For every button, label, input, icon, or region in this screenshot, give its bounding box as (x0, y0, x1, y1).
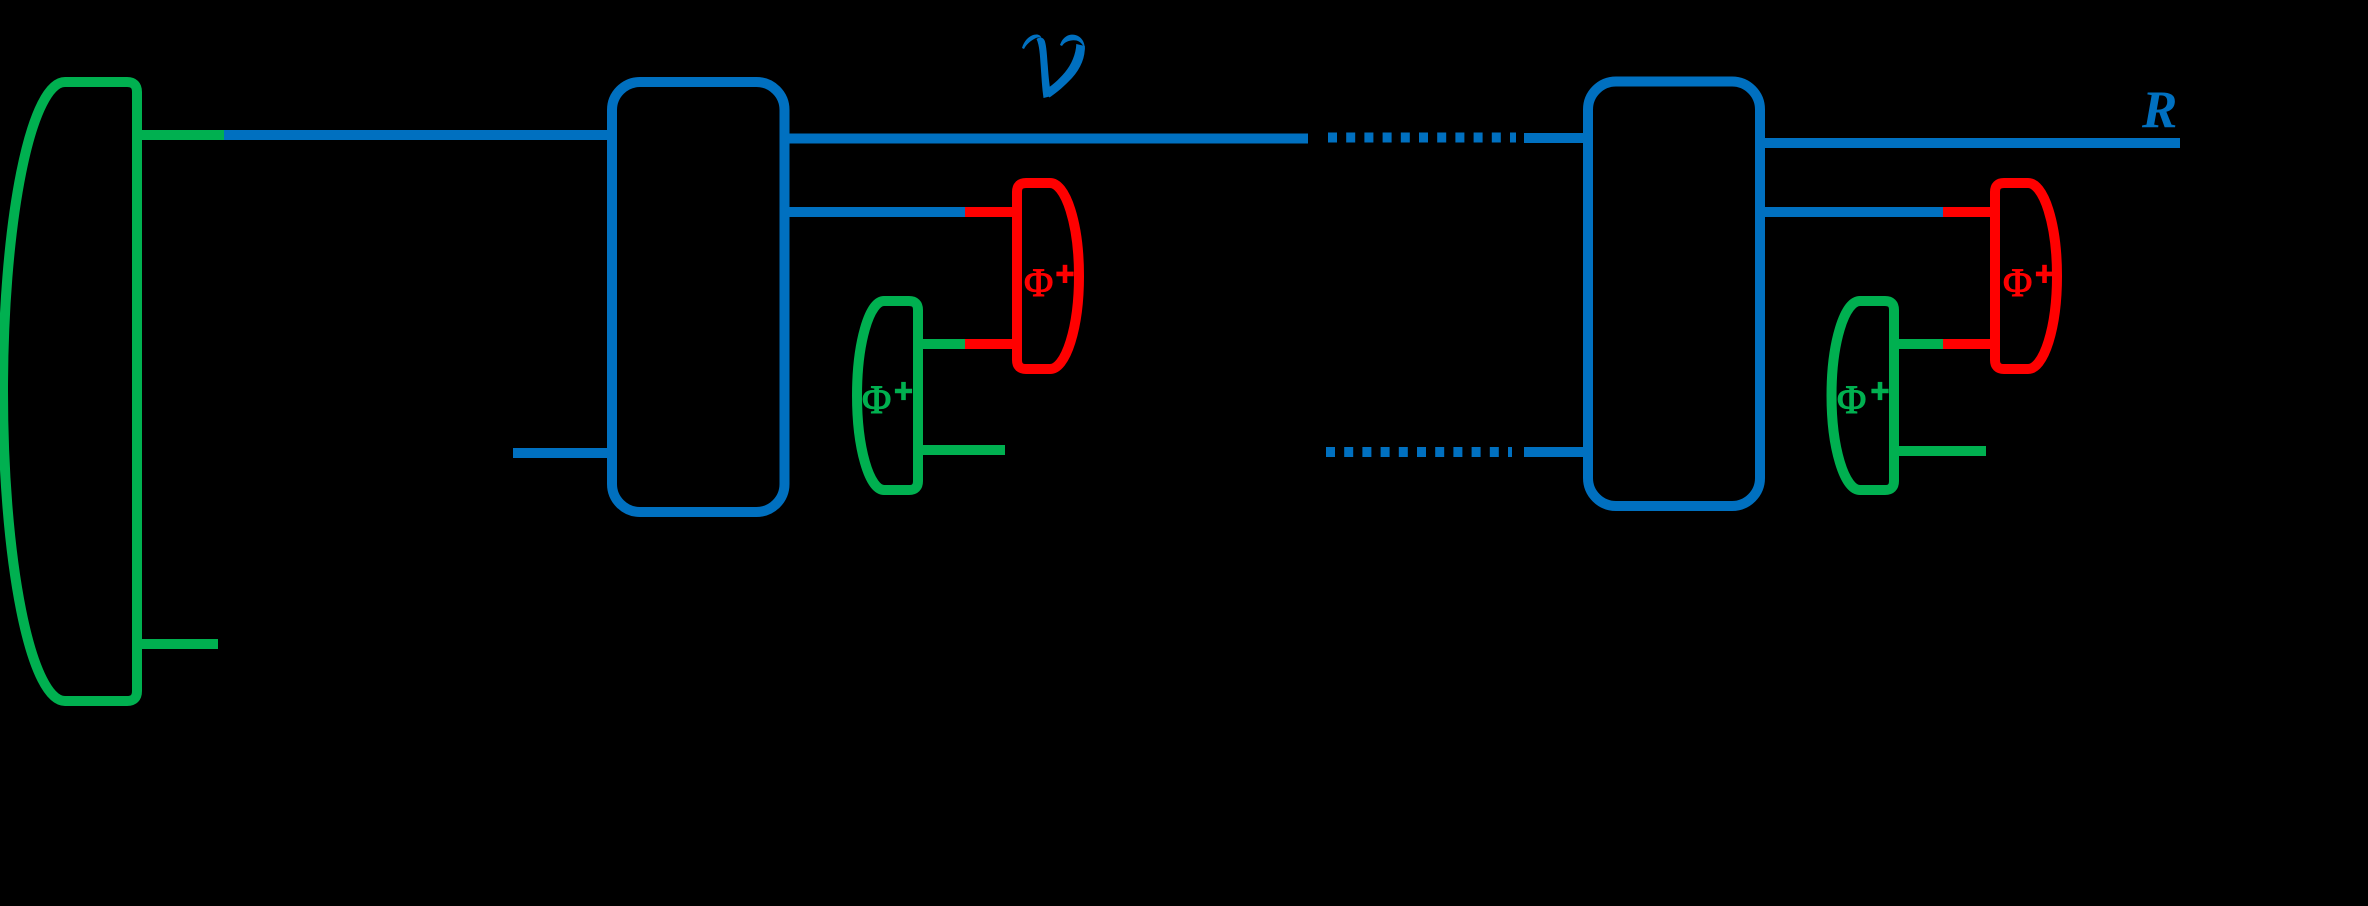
Bell state Phi+ red cup 2 (1995, 183, 2057, 369)
box V2 (isometry V, blue rounded rectangle) (1588, 82, 1760, 507)
wire: dashed bottom wire (1326, 447, 1512, 457)
label V (script V over top wire) (1022, 35, 1042, 49)
wire: blue wire from box V1 top-right (label V) (784, 134, 1308, 144)
wire: blue wire from box V2 to red cup 2 (1760, 207, 1943, 217)
wire: solid top wire into box V2 (1524, 133, 1588, 143)
wire: red segment into red cup 2 lower port (1943, 339, 2000, 349)
wire: red segment into Bell cup Phi1 (965, 207, 1022, 217)
svg-text:Φ: Φ (2003, 260, 2032, 305)
Bell state Phi+ green cup 1 (857, 301, 918, 490)
wire: blue stub into box V1 bottom-left (513, 448, 612, 458)
wire: green stub from Psi bottom output (137, 639, 218, 649)
wire: blue wire from box V1 to Bell cup Phi1 (784, 207, 965, 217)
wire: dashed continuation of top wire (1328, 133, 1516, 143)
box V1 (isometry V, blue rounded rectangle) (612, 82, 785, 512)
wire: red segment into red cup 2 (1943, 207, 2000, 217)
wire: solid bottom wire into box V2 (1524, 447, 1588, 457)
svg-text:Φ: Φ (1024, 260, 1053, 305)
wire: green segment from green cup 2 (1894, 339, 1943, 349)
wire: green bottom stub of green cup 2 (1894, 446, 1986, 456)
svg-text:R: R (2141, 81, 2177, 139)
Bell state Phi+ red cup 1 (1017, 183, 1079, 369)
Bell state Phi+ green cup 2 (1832, 301, 1894, 490)
svg-text:Φ: Φ (862, 377, 891, 422)
svg-text:Φ: Φ (1837, 377, 1866, 422)
state Psi (big green preparation cup) (3, 82, 137, 701)
wire: red segment into red cup 1 lower port (965, 339, 1022, 349)
wire: blue wire from box V2 top-right (label R) (1760, 138, 2180, 148)
wire: green segment from green cup 1 (918, 339, 965, 349)
wire: green bottom stub of green cup 1 (918, 445, 1005, 455)
wire: blue wire from Psi to box V1 (224, 130, 612, 140)
wire: green stub from Psi top output (137, 130, 224, 140)
